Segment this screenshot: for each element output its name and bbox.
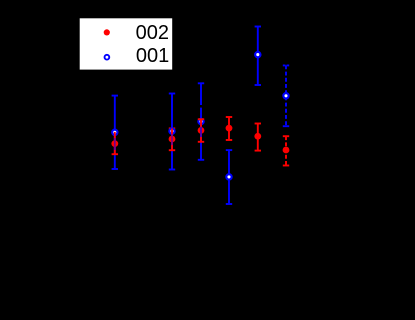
group 6 red dashed error bar [283, 136, 289, 165]
group 1 blue error bar [112, 96, 118, 169]
group 6 blue dashed error bar [283, 65, 289, 126]
group 4 blue point [226, 174, 231, 179]
legend marker 002 (red dot) [104, 29, 110, 35]
group 1 blue point [112, 130, 117, 135]
group 4 red point [226, 125, 233, 132]
svg-text:001: 001 [136, 45, 169, 67]
group 5 red point [254, 133, 261, 140]
group 1 red top cap [112, 131, 118, 133]
group 2 blue error bar [169, 94, 175, 170]
group 4 red error bar [226, 117, 232, 140]
svg-text:002: 002 [136, 22, 169, 44]
group 3 blue error bar (gap in upper segment) [198, 83, 204, 160]
group 2 red top cap [169, 127, 175, 129]
group 2 blue line over red point [171, 134, 173, 145]
group 2 red error bar [169, 128, 175, 150]
group 1 red point [111, 140, 118, 147]
group 6 red point [283, 147, 290, 154]
group 1 blue line over red point [114, 138, 116, 150]
legend box [80, 18, 173, 69]
group 3 blue line over red point [200, 127, 202, 137]
group 6 blue point [283, 93, 288, 98]
group 1 red error bar [112, 132, 118, 154]
group 2 blue point [169, 128, 174, 133]
group 2 red point [169, 136, 176, 143]
group 5 blue error bar [255, 27, 261, 86]
group 3 red point [198, 127, 205, 134]
legend marker 001 (blue open circle) [105, 55, 110, 60]
group 3 blue point [198, 119, 203, 124]
group 5 red error bar [255, 124, 261, 151]
group 4 blue error bar [226, 150, 232, 204]
group 5 blue point [255, 52, 260, 57]
group 3 red error bar [198, 119, 204, 142]
